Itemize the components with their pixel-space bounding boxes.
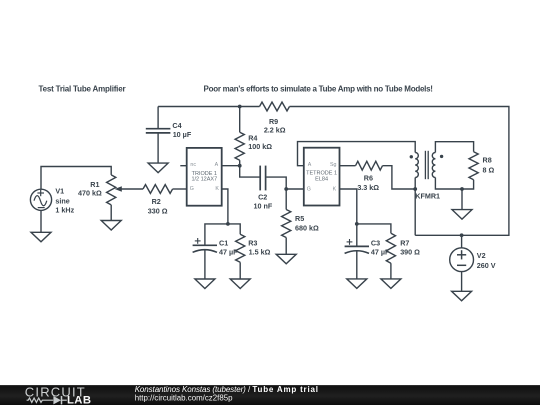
wire V2 bottom stub	[461, 272, 463, 292]
KFMR1 label	[415, 191, 440, 200]
C3 labels	[371, 239, 390, 257]
svg-text:3.3 kΩ: 3.3 kΩ	[357, 183, 379, 192]
resistor R2 330 &#937;	[143, 185, 173, 194]
resistor R7 390 &#937;	[386, 233, 395, 263]
svg-text:R8: R8	[483, 156, 492, 165]
resistor R6 3.3 k&#937;	[356, 161, 383, 170]
title note 2	[204, 84, 433, 93]
svg-text:R4: R4	[248, 133, 257, 142]
R4 labels	[248, 133, 272, 151]
ground below R1	[101, 221, 121, 231]
wire R4 bottom stub	[239, 160, 241, 166]
svg-text:Sg: Sg	[330, 162, 337, 168]
capacitor C2 10 nF	[260, 166, 265, 191]
svg-text:C4: C4	[172, 121, 181, 130]
svg-text:A: A	[215, 162, 219, 168]
R3 labels	[248, 239, 270, 257]
tetrode U2 box (EL84)	[304, 148, 340, 206]
transformer KFMR1 primary coil	[415, 153, 418, 178]
wire node to C1	[205, 224, 228, 245]
wire R3 bottom stub	[239, 262, 241, 279]
wire primary bottom to B+ bottom rail	[414, 178, 416, 236]
svg-text:Poor man's efforts to simulate: Poor man's efforts to simulate a Tube Am…	[204, 84, 433, 93]
wire R5 bottom stub	[285, 238, 287, 255]
potentiometer R1 470 k&#937;	[107, 175, 116, 205]
wire triode A to node	[222, 165, 240, 167]
svg-text:V1: V1	[55, 187, 64, 196]
C3 plus sign	[347, 239, 353, 245]
tetrode pin labels	[307, 162, 337, 192]
node junction V2 on bottom rail	[460, 233, 464, 237]
node junction tetrode K / C3 / R7	[355, 222, 359, 226]
wire V2 top stub	[461, 235, 463, 248]
resistor R9 2.2 k&#937;	[260, 102, 290, 111]
svg-text:2.2 kΩ: 2.2 kΩ	[264, 125, 286, 134]
triode pin labels	[190, 162, 220, 192]
svg-text:8 Ω: 8 Ω	[483, 165, 495, 174]
wire node to C2 left plate	[240, 166, 260, 177]
wire C2 right to node	[267, 177, 287, 189]
transformer secondary phase dot	[440, 155, 443, 158]
resistor R8 8 &#937;	[469, 152, 478, 180]
wire node to tetrode G	[286, 188, 304, 190]
triode name labels	[191, 171, 217, 182]
svg-text:390 Ω: 390 Ω	[400, 248, 420, 257]
resistor R5 680 k&#937;	[282, 210, 291, 238]
svg-text:R7: R7	[400, 239, 409, 248]
wire V1 bottom	[40, 210, 42, 232]
svg-text:1 kHz: 1 kHz	[55, 206, 74, 215]
ground below R7	[381, 279, 401, 289]
V2 labels	[477, 251, 496, 270]
R1 wiper arrow	[115, 186, 143, 192]
transformer core	[425, 151, 428, 179]
svg-text:C3: C3	[371, 239, 380, 248]
svg-text:G: G	[190, 186, 194, 192]
wire R2 to triode G	[173, 188, 187, 190]
svg-text:330 Ω: 330 Ω	[148, 206, 168, 215]
R5 labels	[295, 214, 319, 233]
wire triode K down to node	[222, 189, 228, 224]
wire V1 top to R1 top	[41, 167, 111, 190]
svg-text:nc: nc	[190, 162, 196, 168]
svg-text:TETRODE 1: TETRODE 1	[306, 170, 337, 176]
ground below secondary	[452, 210, 472, 220]
svg-text:http://circuitlab.com/cz2f85p: http://circuitlab.com/cz2f85p	[135, 393, 233, 402]
wire B+ rail right segment / right rail / bottom rail	[290, 107, 509, 236]
svg-text:47 µF: 47 µF	[371, 248, 390, 257]
wire secondary ground stub	[461, 189, 463, 210]
svg-text:A: A	[308, 162, 312, 168]
svg-text:C1: C1	[219, 239, 228, 248]
svg-text:470 kΩ: 470 kΩ	[78, 188, 102, 197]
svg-text:R2: R2	[152, 197, 161, 206]
node junction at R4 bottom / triode anode	[238, 164, 242, 168]
svg-text:LAB: LAB	[67, 394, 91, 405]
wire R6 out to primary bottom node	[383, 166, 416, 189]
footer black bar	[0, 385, 540, 405]
R2 labels	[148, 197, 168, 215]
svg-text:K: K	[333, 186, 337, 192]
svg-text:10 µF: 10 µF	[173, 130, 192, 139]
triode nc stub	[180, 165, 186, 167]
C1 plus sign	[195, 238, 201, 244]
title note 1	[39, 84, 126, 93]
wire tetrode A up and over to transformer primary top	[298, 142, 416, 166]
triode U1 box (1/2 12AX7)	[187, 148, 222, 206]
node junction C2 / R5 / tetrode G	[284, 187, 288, 191]
junction R4 top on B+ rail	[238, 105, 242, 109]
svg-text:EL84: EL84	[315, 177, 328, 183]
capacitor C1 47 uF (polarized)	[193, 245, 217, 279]
footer url line	[135, 393, 233, 402]
wire tetrode K down to node	[340, 189, 357, 224]
svg-text:V2: V2	[477, 251, 486, 260]
wire node to C3	[356, 224, 358, 247]
tetrode name labels	[306, 170, 337, 182]
ground below C4	[148, 163, 168, 173]
V1 value labels	[55, 187, 74, 215]
node junction secondary ground tap	[460, 187, 464, 191]
ground below V2	[452, 291, 472, 301]
R1 labels	[78, 180, 102, 197]
ground below C1	[195, 279, 215, 289]
svg-text:680 kΩ: 680 kΩ	[295, 224, 319, 233]
R9 labels	[264, 117, 286, 135]
svg-text:R3: R3	[248, 239, 257, 248]
svg-text:Test Trial Tube Amplifier: Test Trial Tube Amplifier	[39, 84, 126, 93]
wire B+ top rail left segment	[158, 106, 259, 108]
wire R1 bottom	[110, 205, 112, 221]
capacitor C4 10 uF	[146, 129, 171, 163]
footer author/title line	[135, 385, 319, 394]
voltage source V2 260 V	[450, 248, 474, 272]
wire C4 top stub	[157, 107, 159, 129]
svg-text:47 µF: 47 µF	[219, 248, 238, 257]
R6 labels	[357, 174, 379, 193]
R7 labels	[400, 239, 420, 257]
transformer primary phase dot	[410, 155, 413, 158]
svg-text:10 nF: 10 nF	[254, 201, 273, 210]
svg-text:R5: R5	[295, 214, 304, 223]
wire R4 top stub	[239, 107, 241, 133]
wire node to R7	[357, 224, 391, 233]
wire R5 top stub	[285, 189, 287, 210]
svg-text:sine: sine	[55, 197, 69, 206]
wire node to R3	[228, 224, 240, 234]
voltage source V1 (sine 1 kHz)	[30, 189, 51, 210]
ground below V1	[31, 232, 51, 242]
svg-text:1.5 kΩ: 1.5 kΩ	[249, 248, 271, 257]
C1 labels	[219, 239, 238, 257]
resistor R4 100 k&#937;	[235, 132, 244, 160]
resistor R3 1.5 k&#937;	[236, 234, 245, 262]
R8 labels	[483, 156, 495, 175]
C2 labels	[254, 192, 273, 210]
node junction R6 / primary bottom	[413, 187, 417, 191]
logo resistor zigzag and diode underline	[27, 396, 67, 404]
ground below R3	[230, 279, 250, 289]
capacitor C3 47 uF (polarized)	[345, 246, 369, 279]
svg-text:R6: R6	[364, 174, 373, 183]
svg-text:G: G	[307, 186, 311, 192]
svg-text:100 kΩ: 100 kΩ	[248, 142, 272, 151]
wire R7 bottom stub	[390, 263, 392, 279]
node junction triode K / C1 / R3	[226, 222, 230, 226]
svg-text:1/2 12AX7: 1/2 12AX7	[191, 176, 217, 182]
ground below R5	[276, 254, 296, 263]
svg-text:C2: C2	[258, 192, 267, 201]
svg-text:260 V: 260 V	[477, 261, 496, 270]
wire secondary bottom to R8 bottom	[435, 178, 473, 190]
C4 labels	[172, 121, 191, 139]
wire secondary top to R8	[435, 142, 473, 153]
CircuitLab logo wordmark CIRCUIT	[25, 385, 86, 400]
svg-text:KFMR1: KFMR1	[415, 191, 440, 200]
ground below C3	[347, 279, 367, 289]
logo LAB text	[67, 394, 91, 405]
transformer KFMR1 secondary coil	[432, 153, 435, 178]
wire tetrode Sg to R6	[340, 165, 356, 167]
svg-text:K: K	[215, 186, 219, 192]
